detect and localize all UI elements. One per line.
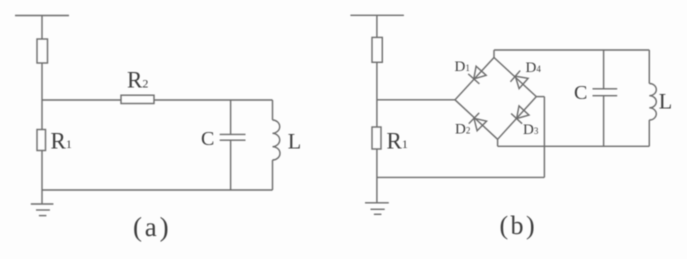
diode D4 (510, 71, 528, 89)
svg-text:D4: D4 (526, 60, 542, 76)
svg-text:R1: R1 (51, 129, 72, 154)
svg-text:C: C (201, 128, 214, 150)
ground (b) (365, 203, 389, 215)
wire: R1 to ground (b) (376, 149, 378, 203)
node: top terminal bar (b) (350, 14, 404, 16)
wire: inductor top lead (a) (272, 100, 274, 120)
wire: bridge edge top-right (494, 58, 536, 97)
wire: vertical main wire (a) (41, 63, 43, 130)
wire: capacitor bottom lead (b) (603, 96, 605, 147)
wire: inductor bottom lead (a) (272, 160, 274, 190)
svg-text:(a): (a) (133, 212, 171, 242)
capacitor C (b) (593, 89, 618, 96)
svg-text:R1: R1 (387, 129, 408, 154)
wire: node to bridge left vertex (b) (377, 99, 455, 101)
wire: capacitor top lead (a) (230, 100, 232, 134)
inductor L (b) (649, 84, 656, 121)
wire: bridge right vertex stub (536, 96, 544, 98)
resistor R1 (b) (372, 127, 381, 149)
svg-text:R2: R2 (127, 68, 148, 93)
wire: return bottom (b) (377, 176, 545, 178)
resistor (unlabeled source resistor, circuit b) (372, 37, 382, 62)
wire: R2 to tank top rail (a) (154, 99, 273, 101)
wire: vertical main wire (b) (376, 62, 378, 127)
wire: inductor top lead (b) (648, 50, 650, 84)
wire: bottom rail (a) (42, 189, 273, 191)
wire: capacitor top lead (b) (603, 50, 605, 89)
wire: top feed (a) (41, 16, 43, 53)
svg-text:(b): (b) (500, 211, 538, 240)
wire: inductor bottom lead (b) (648, 120, 650, 146)
wire: tank top rail (b) (494, 49, 649, 51)
wire: bridge top vertex stub (493, 50, 495, 58)
resistor R1 (a) (37, 130, 46, 151)
wire: return vertical (b) (543, 97, 545, 178)
svg-text:D1: D1 (455, 59, 470, 75)
node: top terminal bar (a) (15, 15, 69, 17)
svg-text:D2: D2 (455, 122, 470, 138)
ground (a) (31, 204, 54, 216)
svg-text:D3: D3 (523, 122, 539, 138)
wire: bridge edge bottom-left (455, 100, 498, 140)
wire: bridge edge bottom-right (498, 97, 537, 140)
wire: tank bottom rail (b) (498, 145, 650, 147)
resistor (unlabeled source resistor, circuit a) (37, 39, 48, 63)
resistor R2 (a) (121, 95, 154, 103)
svg-text:L: L (659, 89, 672, 114)
diode D1 (468, 66, 486, 84)
wire: node to R2 (a) (42, 99, 121, 101)
wire: capacitor bottom lead (a) (230, 140, 232, 190)
wire: top feed (b) (376, 15, 378, 51)
svg-text:C: C (574, 82, 587, 104)
diode D3 (511, 106, 529, 124)
svg-text:L: L (288, 129, 301, 154)
inductor L (a) (273, 120, 281, 160)
wire: R1 to ground (a) (41, 151, 43, 205)
diode D2 (469, 113, 487, 131)
capacitor C (a) (220, 134, 246, 140)
wire: bridge edge top-left (455, 58, 494, 100)
wire: bridge bottom vertex stub (497, 139, 499, 146)
